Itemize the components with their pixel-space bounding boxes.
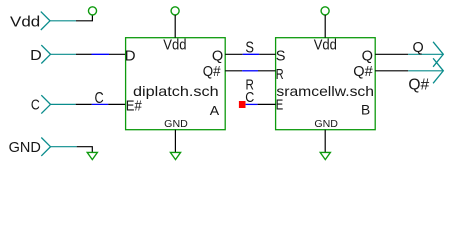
svg-text:Vdd: Vdd xyxy=(163,37,186,53)
svg-text:Vdd: Vdd xyxy=(314,37,337,53)
svg-text:S: S xyxy=(276,48,286,64)
svg-text:Vdd: Vdd xyxy=(10,14,40,30)
svg-text:B: B xyxy=(361,103,370,118)
svg-text:Q: Q xyxy=(413,39,424,56)
svg-text:Q: Q xyxy=(212,48,223,64)
svg-text:D: D xyxy=(125,48,136,64)
svg-text:GND: GND xyxy=(314,119,338,130)
svg-text:Q#: Q# xyxy=(408,77,429,94)
svg-text:C: C xyxy=(95,90,104,107)
svg-text:GND: GND xyxy=(9,140,41,156)
svg-text:C: C xyxy=(31,97,40,114)
svg-text:R: R xyxy=(276,67,284,83)
svg-text:Q#: Q# xyxy=(203,64,222,80)
svg-text:E#: E# xyxy=(126,98,143,114)
svg-text:S: S xyxy=(245,40,254,57)
svg-text:A: A xyxy=(210,104,220,118)
svg-text:Q: Q xyxy=(362,48,373,64)
svg-text:Q#: Q# xyxy=(353,64,373,80)
svg-text:C: C xyxy=(245,90,254,106)
svg-text:E: E xyxy=(276,98,284,114)
svg-text:GND: GND xyxy=(164,119,188,130)
svg-text:sramcellw.sch: sramcellw.sch xyxy=(276,83,374,99)
svg-text:diplatch.sch: diplatch.sch xyxy=(133,83,219,99)
svg-text:D: D xyxy=(30,48,42,64)
